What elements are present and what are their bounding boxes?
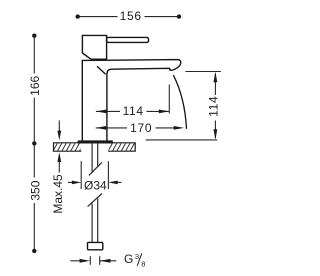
svg-text:Max.45: Max.45 bbox=[51, 174, 65, 214]
svg-text:350: 350 bbox=[28, 180, 42, 200]
svg-text:166: 166 bbox=[28, 75, 42, 95]
svg-text:170: 170 bbox=[130, 121, 152, 135]
svg-text:Ø34: Ø34 bbox=[84, 179, 107, 193]
svg-text:114: 114 bbox=[206, 96, 220, 117]
svg-text:8: 8 bbox=[141, 259, 145, 268]
svg-text:114: 114 bbox=[123, 104, 144, 118]
svg-text:G: G bbox=[124, 252, 133, 266]
svg-text:3: 3 bbox=[135, 252, 139, 261]
svg-text:156: 156 bbox=[120, 9, 142, 23]
